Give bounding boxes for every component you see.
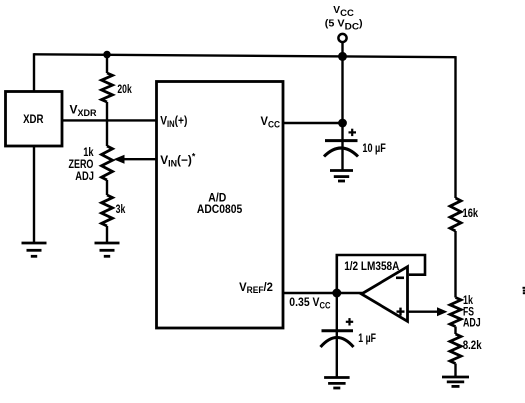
node: junction of supply lead with top bus — [338, 52, 347, 61]
svg-text:3k: 3k — [116, 203, 126, 217]
transducer XDR — [6, 92, 63, 147]
wire: left vertical from bus to XDR — [33, 53, 35, 92]
wire: node down into 1uF — [336, 293, 338, 378]
wire: right vertical from bus corner down to 16k — [454, 56, 456, 198]
ground: below XDR — [22, 243, 47, 256]
IC U1 A/D ADC0805 — [157, 82, 284, 329]
node: junction VREF/2, output, 1uF — [332, 289, 341, 298]
wire: pot to 3k — [106, 180, 108, 195]
potentiometer R5 1k FS ADJ — [450, 294, 481, 330]
svg-text:XDR: XDR — [23, 113, 43, 126]
wire: 8.2k to ground — [454, 364, 456, 378]
wire: supply vertical into 10uF — [341, 56, 343, 170]
wire: op-amp + input to FS wiper arrow — [408, 307, 448, 316]
wire: FS pot to 8.2k — [454, 327, 456, 335]
resistor R3 3k — [102, 195, 126, 226]
resistor R1 20k — [102, 55, 132, 102]
svg-text:ADJ: ADJ — [463, 316, 481, 330]
power terminal VCC (5 VDC) — [325, 5, 363, 56]
wire: VREF/2 pin to node — [283, 292, 337, 294]
wire: 20k bottom through VXDR node to 1k pot — [106, 102, 108, 146]
resistor R6 8.2k — [450, 334, 482, 364]
resistor R4 16k — [450, 198, 479, 231]
svg-text:VIN(−)*: VIN(−)* — [160, 152, 196, 169]
wire: 16k to FS pot — [454, 231, 456, 298]
svg-text:8.2k: 8.2k — [463, 339, 483, 352]
node: junction VCC pin / 10uF — [338, 119, 347, 128]
ground: below 1uF — [324, 378, 350, 389]
svg-text:1/2 LM358A: 1/2 LM358A — [344, 260, 399, 273]
wire: XDR bottom lead to ground — [33, 146, 35, 243]
wire: VCC pin to bypass cap node — [283, 122, 343, 124]
wire: op-amp output to VREF node — [337, 292, 363, 294]
node: junction 20k top on bus — [103, 51, 111, 59]
ground: below 3k — [95, 243, 120, 256]
capacitor C2 1uF — [321, 318, 377, 347]
capacitor C1 10uF — [324, 129, 386, 157]
svg-text:20k: 20k — [117, 83, 131, 97]
svg-text:ADC0805: ADC0805 — [197, 203, 242, 216]
ground: below 10uF — [330, 171, 353, 182]
svg-text:VIN(+): VIN(+) — [160, 115, 187, 129]
artifact marks at right edge — [523, 287, 525, 294]
ground: below 8.2k — [442, 377, 469, 386]
op-amp U2 1/2 LM358A — [344, 260, 407, 321]
svg-text:16k: 16k — [463, 207, 479, 221]
wire: feedback loop over op-amp to inverting input — [337, 255, 425, 293]
node VXDR wire to VIN(+) — [61, 103, 157, 121]
potentiometer R2 1k ZERO ADJ — [69, 146, 113, 183]
svg-text:10 µF: 10 µF — [362, 142, 386, 156]
wire: top supply bus — [34, 54, 456, 57]
wire: VIN(-) lead with wiper arrow into ZERO ADJ pot — [114, 155, 158, 164]
svg-text:ADJ: ADJ — [75, 170, 94, 184]
svg-text:1 µF: 1 µF — [358, 332, 376, 346]
wire: 3k bottom lead — [106, 226, 108, 243]
